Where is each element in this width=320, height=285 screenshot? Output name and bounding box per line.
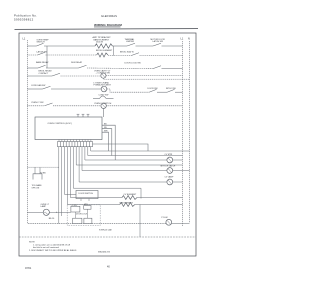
lamp L2 circle: [101, 86, 107, 92]
resistor broil element zigzag: [97, 53, 108, 57]
svg-text:NOTE:: NOTE:: [29, 242, 36, 244]
switch thermal limiter blade: [127, 43, 135, 46]
wire harness 10: [84, 147, 86, 160]
wire row7 to bus: [106, 105, 182, 107]
wire motor2 to N bus: [173, 170, 190, 172]
wire zigzag row A left: [70, 197, 122, 199]
wire row3 left: [27, 67, 38, 69]
junction dot: [56, 212, 57, 213]
svg-text:N: N: [188, 38, 190, 41]
lock assembly dashed enclosure: [67, 205, 100, 226]
svg-text:OVEN CONTROL (EOC): OVEN CONTROL (EOC): [48, 123, 72, 125]
motor M2 circle: [167, 168, 173, 174]
svg-text:OFF-ON: OFF-ON: [32, 187, 40, 189]
switch conv fan blade: [43, 86, 51, 89]
wire row1 to L1 bus: [162, 45, 183, 47]
wire run y182 to lamp: [79, 181, 167, 183]
wire row5: [157, 91, 167, 93]
wire harness 3: [64, 147, 66, 195]
svg-text:LK SW: LK SW: [72, 205, 78, 207]
lamp L1 circle: [101, 73, 106, 78]
wire left bus to probe jack: [27, 166, 59, 168]
wire run y170.5 to motor2: [82, 170, 167, 172]
wire stub board top 1: [77, 114, 79, 117]
switch door lock blade: [153, 66, 161, 69]
motor M1 circle: [167, 157, 173, 163]
svg-text:P BRACKET ASSY: P BRACKET ASSY: [94, 84, 112, 87]
wire motor1 to bus: [173, 159, 183, 161]
switch S1 blade: [37, 43, 44, 46]
wire run y188.2: [73, 188, 141, 198]
wire lamp3 to board top: [103, 109, 105, 118]
wire bus to oven light: [27, 211, 43, 213]
svg-text:CONV SW: CONV SW: [99, 95, 109, 97]
svg-text:CONTACT: CONTACT: [39, 72, 49, 75]
wire strip right to node: [93, 144, 149, 151]
switch DLB blade: [79, 65, 87, 68]
wire harness 11: [87, 147, 89, 156]
wire lock internal: [74, 212, 76, 218]
switch broil relay blade: [52, 73, 60, 76]
svg-text:07/01: 07/01: [25, 267, 32, 270]
wire clock motor left: [27, 223, 166, 225]
title underline: [94, 26, 121, 28]
wire stub board top 2: [82, 114, 84, 117]
wire row5 jog: [107, 89, 149, 92]
svg-text:DOOR LOCK SW: DOOR LOCK SW: [125, 63, 141, 65]
svg-text:BROIL 3000 W: BROIL 3000 W: [120, 51, 134, 53]
svg-text:LATCH SW: LATCH SW: [153, 40, 163, 43]
svg-text:BK-16: BK-16: [49, 218, 55, 220]
svg-text:WIRING DIAGRAM: WIRING DIAGRAM: [94, 23, 122, 27]
wire row7 left: [27, 105, 44, 107]
wire harness 2: [61, 147, 63, 216]
schematic border frame: [19, 33, 196, 256]
svg-text:GLEF396AS: GLEF396AS: [101, 14, 117, 18]
vertical connector rows 1-2: [46, 46, 48, 68]
svg-text:5995398812: 5995398812: [14, 18, 34, 22]
chassis separator dashed line: [19, 236, 196, 238]
wire row1 after element: [112, 45, 127, 47]
wire row3 to bus: [162, 68, 183, 70]
lock box 3: [73, 218, 82, 224]
wire row2 to bus: [140, 55, 183, 57]
svg-text:1. wiring colors are as identi: 1. wiring colors are as identified BK (?…: [33, 244, 70, 247]
wire board right 1: [102, 125, 115, 160]
switch blade row2 right: [131, 53, 139, 56]
lamp L3 circle: [101, 103, 106, 108]
svg-text:40: 40: [107, 266, 110, 269]
connector ticks board top: [77, 113, 80, 115]
oven light lamp circle: [43, 209, 49, 215]
wire row6: [106, 98, 113, 100]
wire zigzag row B right to bus: [135, 204, 183, 206]
wire oven light right: [49, 211, 71, 213]
harness vertical wires: [59, 147, 91, 224]
wire N bus corner to clock motor: [172, 223, 190, 225]
svg-text:OVEN LT SW: OVEN LT SW: [31, 102, 44, 104]
lock box 1: [71, 206, 80, 212]
wire harness 9: [81, 147, 83, 171]
svg-text:this field is not self contain: this field is not self contained.: [33, 246, 60, 249]
wire lamp4 to bus: [173, 181, 183, 183]
lock box 4: [84, 218, 92, 224]
wire row5 left: [27, 88, 42, 90]
wire row3: [46, 67, 79, 69]
lamp L4 circle: [167, 179, 173, 185]
wire harness 8: [78, 147, 80, 182]
wire row3: [87, 67, 153, 70]
wire left vertical bus: [26, 40, 28, 224]
wire row2: [108, 55, 131, 57]
switch oven lt blade: [45, 103, 53, 106]
wire row5: [51, 88, 101, 90]
probe jack stubs: [34, 167, 36, 174]
svg-text:CONV FAN SW: CONV FAN SW: [31, 84, 45, 87]
svg-text:L1: L1: [23, 38, 26, 41]
wire run y160 to motor: [85, 159, 167, 161]
wire door switch left: [65, 194, 76, 196]
wire harness 7: [75, 147, 77, 165]
wire harness 1: [58, 147, 60, 224]
wire row5 to bus: [175, 91, 183, 93]
wire row4 to bus: [106, 75, 183, 77]
wire row2 left: [27, 54, 37, 56]
svg-text:N WH-16 CAV: N WH-16 CAV: [99, 228, 112, 231]
switch door sw blade: [149, 89, 157, 92]
svg-text:BAKE RELAY: BAKE RELAY: [36, 61, 49, 64]
wire N right vertical bus: [189, 41, 191, 223]
svg-text:LIMITER: LIMITER: [126, 41, 135, 43]
svg-text:BROIL ELEMENT: BROIL ELEMENT: [96, 50, 113, 52]
resistor bake element zigzag: [95, 44, 112, 48]
switch bump contact: [100, 96, 107, 99]
lock box 2: [84, 206, 91, 210]
wire row1 mid: [44, 45, 95, 47]
wire zigzag row A right to bus: [137, 197, 183, 199]
switch bake relay blade: [38, 65, 46, 68]
wire lamp return to N bus: [103, 78, 189, 79]
connector strip P1: [58, 142, 93, 147]
wire board right 2: [102, 129, 112, 156]
svg-text:DOOR LOCK: DOOR LOCK: [76, 214, 88, 216]
wire row4 left: [27, 75, 52, 77]
switch intlk blade: [167, 89, 175, 92]
wire drop x142 to ground line: [139, 205, 141, 238]
wire row1: [27, 45, 36, 47]
wire harness 6: [72, 147, 74, 189]
vertical connector elements: [113, 46, 115, 56]
wire stub board top 3: [87, 114, 89, 117]
clock motor circle: [166, 219, 172, 225]
wire row4: [61, 75, 101, 77]
wire run y151 to N bus: [91, 150, 190, 152]
svg-text:CV ELEMENT: CV ELEMENT: [124, 194, 138, 196]
svg-text:P DLM: P DLM: [161, 217, 167, 219]
svg-text:CV MTR: CV MTR: [165, 154, 173, 156]
wire run y165: [76, 164, 182, 166]
probe jack U shape: [33, 174, 42, 180]
svg-text:LATCH SW: LATCH SW: [37, 50, 47, 53]
switch latch blade: [153, 43, 161, 46]
wire harness 4: [67, 147, 69, 205]
wire row7: [53, 105, 101, 107]
resistor warmer element zigzag: [120, 203, 135, 207]
switch S2 blade: [38, 52, 46, 55]
svg-text:DOOR SWITCH: DOOR SWITCH: [79, 193, 94, 195]
wire zigzag row B left: [68, 204, 120, 206]
control board EOC rectangle: [35, 117, 102, 140]
svg-text:CV LAMP: CV LAMP: [165, 176, 174, 179]
wire harness 5: [69, 147, 71, 198]
svg-text:2. DISCONNECT SW P ID BK U: 2. DISCONNECT SW P ID BK UPPER BK AL SHE…: [29, 249, 77, 252]
svg-text:L1: L1: [181, 38, 184, 41]
door switch box: [76, 191, 98, 199]
resistor conv element zigzag: [122, 196, 137, 200]
wire door switch stubs: [80, 199, 82, 202]
full-width header rule: [15, 28, 199, 31]
wire stubs board bottom to strip: [59, 140, 91, 142]
svg-text:58624613 B: 58624613 B: [98, 252, 110, 254]
svg-text:LAMP: LAMP: [41, 205, 47, 208]
svg-text:2600 W: 2600 W: [96, 41, 103, 43]
wire row2 mid: [46, 54, 97, 56]
wire harness 12: [90, 147, 92, 151]
wire run y155.5: [88, 155, 183, 157]
svg-text:SWITCH: SWITCH: [37, 42, 46, 44]
wire L1 right vertical bus: [182, 41, 184, 226]
wire board right 3: [102, 132, 109, 151]
wire row1: [136, 45, 154, 47]
wire row6: [93, 98, 100, 100]
svg-text:DLB RELAY: DLB RELAY: [71, 61, 83, 64]
